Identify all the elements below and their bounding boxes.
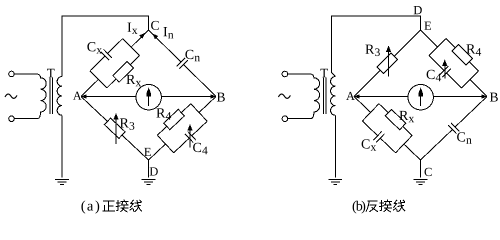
AC source ~ symbol (b) — [278, 94, 290, 98]
wire secondary bottom to ground (b) — [334, 115, 336, 177]
wire A-B detector (a) — [81, 96, 216, 98]
label R3 (b) — [365, 45, 379, 56]
current arrow Ix (a) — [139, 33, 145, 39]
arrowhead at node A (b) — [354, 94, 359, 98]
node D label (a) — [150, 167, 158, 175]
ground (b left) — [329, 180, 343, 185]
wire A-C (a) end links — [90, 39, 140, 88]
adjust arrow C4 (a) — [187, 124, 192, 147]
node E label (a) — [144, 148, 151, 156]
resistor Rx — [113, 62, 134, 82]
wire E-B (b) entry — [421, 30, 438, 47]
capacitor Cn (a) — [177, 58, 188, 69]
AC source terminal bottom (b) — [282, 116, 288, 122]
ground (a bridge) — [142, 180, 156, 185]
wire E-B (b) capacitor branch — [429, 55, 462, 88]
wire A-B detector (b) — [354, 96, 487, 98]
wire E-B (b) exit — [470, 80, 487, 97]
transformer T secondary winding (b) — [331, 77, 336, 116]
node D label (b) — [414, 6, 422, 14]
node C label (a) — [151, 21, 159, 30]
node E label (b) — [424, 22, 431, 30]
current arrow In (a) — [152, 33, 158, 39]
label R3 (a) — [120, 118, 134, 129]
AC source ~ symbol (a) — [5, 94, 17, 98]
wire C-B (a) — [149, 30, 217, 97]
node A label (a) — [73, 92, 82, 100]
ground (a left) — [55, 180, 69, 185]
node C label (b) — [425, 168, 432, 176]
wire bottom terminal to primary (a) — [14, 118, 37, 120]
wire A-E (a) — [81, 97, 149, 161]
resistor R4 — [164, 109, 185, 129]
AC source terminal top (b) — [282, 71, 288, 77]
wire A-C (b) resistor branch — [379, 104, 412, 136]
label Cx (a) — [87, 42, 102, 53]
transformer T primary winding (b) — [310, 74, 319, 119]
label Cn (b) — [457, 132, 472, 143]
arrowhead at node B (a) — [211, 94, 216, 98]
caption (a) zheng jie xian — [81, 200, 141, 214]
transformer core (b) — [323, 78, 326, 115]
wire bottom terminal to primary (b) — [288, 118, 311, 120]
galvanometer detector (a) — [136, 85, 161, 110]
AC source terminal bottom (a) — [9, 116, 15, 122]
resistor R3 (a) — [104, 118, 125, 138]
label T (a) — [47, 69, 54, 78]
capacitor Cn (b) — [448, 123, 459, 134]
transformer core (a) — [50, 78, 53, 115]
wire A-C (b) entry — [354, 97, 371, 113]
wire A-C (b) end links — [362, 104, 412, 153]
AC source terminal top (a) — [9, 71, 15, 77]
wire A-C (a) capacitor branch — [90, 39, 123, 71]
transformer T primary winding (a) — [37, 74, 46, 119]
resistor R4 — [452, 45, 473, 66]
capacitor Cx — [374, 131, 385, 142]
wire B-E (a) entry — [199, 97, 216, 113]
wire A-E (b) — [354, 30, 421, 97]
wire C to ground (b) — [420, 160, 422, 177]
wire A-C (a) resistor branch — [107, 56, 140, 88]
label Ix (a) — [128, 23, 138, 34]
arrowhead at node B (b) — [482, 94, 487, 98]
resistor R3 (b) — [377, 53, 398, 74]
transformer T secondary winding (a) — [57, 77, 62, 116]
resistor Rx — [385, 109, 406, 129]
label Cx (b) — [362, 139, 377, 150]
label T (b) — [320, 69, 327, 78]
label Rx (b) — [399, 111, 414, 122]
ground (b bridge) — [414, 180, 428, 185]
node B label (b) — [490, 93, 498, 102]
adjust arrow R3 (a) — [113, 113, 118, 144]
wire supply loop (b) — [332, 16, 421, 77]
wire E-B (b) resistor branch — [446, 39, 479, 72]
wire B-C (b) — [421, 97, 488, 161]
wire top terminal to primary (b) — [288, 73, 311, 75]
label R4 (a) — [156, 108, 171, 119]
label Rx (a) — [126, 75, 141, 86]
label R4 (b) — [466, 44, 481, 55]
capacitor C4 — [185, 131, 196, 142]
galvanometer detector (b) — [408, 85, 433, 110]
wire A-C (b) capacitor branch — [362, 121, 395, 153]
wire top terminal to primary (a) — [14, 73, 37, 75]
wire B-E (a) resistor branch — [157, 104, 191, 136]
wire A-C (a) entry — [81, 79, 98, 96]
wire E-B (b) end links — [429, 39, 479, 89]
caption (b) fan jie xian — [353, 200, 405, 213]
wire B-E (a) exit — [149, 144, 166, 160]
capacitor Cx — [101, 49, 112, 60]
adjust arrow C4 (b) — [442, 59, 447, 78]
node B label (a) — [217, 93, 225, 102]
wire A-C (a) exit — [131, 30, 148, 47]
wire A-C (b) exit — [404, 144, 421, 160]
wire secondary bottom to ground (a) — [61, 115, 63, 177]
label C4 (a) — [193, 143, 208, 154]
wire E to ground (a) — [148, 160, 150, 177]
wire supply loop (a) — [62, 16, 149, 77]
label C4 (b) — [427, 70, 442, 81]
label Cn (a) — [185, 50, 200, 61]
node A label (b) — [346, 92, 355, 100]
wire B-E (a) end links — [157, 104, 207, 153]
wire B-E (a) capacitor branch — [174, 121, 208, 153]
adjust arrow R3 (b) — [386, 45, 391, 76]
arrowhead at node A (a) — [81, 94, 86, 98]
label In (a) — [164, 27, 174, 38]
capacitor C4 — [440, 66, 451, 77]
